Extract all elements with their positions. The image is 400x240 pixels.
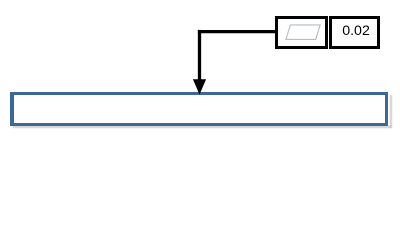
wire: horizontal leader segment <box>198 30 276 33</box>
bar drop shadow (right) <box>390 95 392 128</box>
leader wire + arrowhead <box>0 0 400 150</box>
wire: vertical leader segment <box>198 30 201 81</box>
bar drop shadow (bottom) <box>13 126 392 128</box>
surface bar (part being controlled) <box>10 92 389 126</box>
arrowhead touching surface <box>193 79 206 94</box>
tolerance value 0.02 <box>342 24 370 38</box>
flatness symbol (parallelogram) <box>0 0 400 150</box>
feature control frame: left cell (symbol compartment) <box>275 16 329 50</box>
feature control frame: right cell (tolerance compartment) <box>329 16 380 50</box>
